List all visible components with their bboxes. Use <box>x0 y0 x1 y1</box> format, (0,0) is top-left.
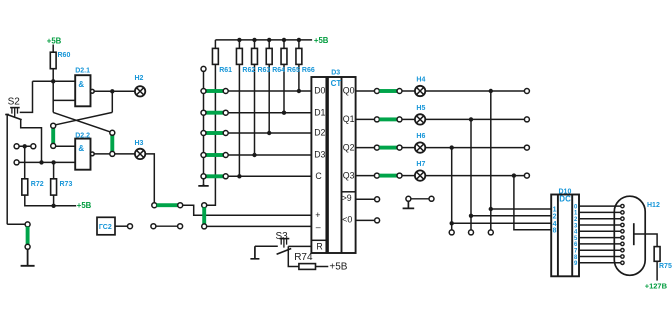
wire left bar to D2.2 input a <box>56 145 75 147</box>
svg-text:C: C <box>315 171 322 181</box>
ground S3 <box>250 246 259 259</box>
junction row D3in / resistor lead <box>252 153 256 157</box>
output row Q2 <box>356 147 375 149</box>
svg-text:ГС2: ГС2 <box>99 224 112 231</box>
wire R66 lead to row D0in <box>298 64 300 91</box>
resistor R73 <box>51 179 57 195</box>
wire D10 out8 to tube pin <box>579 256 621 258</box>
contact terminal Q0 right <box>397 89 402 94</box>
junction Q1 / D10 in2 <box>469 214 473 218</box>
terminal gt9 end <box>375 197 380 202</box>
wire R60 bottom lead <box>52 69 54 82</box>
wire GS2 output <box>115 225 128 227</box>
contact terminal row D0 right <box>223 89 228 94</box>
wire node A branch to D2.1 input b <box>53 99 75 101</box>
wire R61 lead down to contact <box>207 64 216 205</box>
contact terminal row B left <box>14 160 19 165</box>
contact terminal right bar top <box>110 130 115 135</box>
contact bar S2 bottom vertical <box>26 227 30 245</box>
junction row B / R73 <box>51 160 55 164</box>
svg-text:D3: D3 <box>314 150 325 160</box>
counter D3 chip <box>311 77 355 253</box>
resistor R61 <box>212 48 218 64</box>
svg-text:R66: R66 <box>302 67 315 74</box>
terminal below Q2 vertical <box>449 230 454 235</box>
svg-text:R73: R73 <box>60 181 73 188</box>
wire D2.2 output to H3 <box>94 153 135 155</box>
wire to D3 plus input <box>183 205 312 215</box>
svg-text:H5: H5 <box>416 105 425 112</box>
tube cathode pin 7 <box>621 249 624 252</box>
contact terminal Q0 left <box>374 89 379 94</box>
wire R63 top lead <box>254 40 256 49</box>
gate D2.2 <box>75 139 90 170</box>
resistor R62 <box>236 48 242 64</box>
svg-text:<0: <0 <box>342 215 352 225</box>
contact terminal row A left <box>14 144 19 149</box>
wire output node down <box>111 91 113 112</box>
contact terminal row D2 left <box>201 131 206 136</box>
terminal below Q0 vertical <box>488 230 493 235</box>
wire H3 to lower contact <box>145 154 154 203</box>
wire row A to R72 <box>24 146 26 179</box>
junction row D0 / resistor lead <box>297 89 301 93</box>
contact terminal row A right <box>31 144 36 149</box>
wire D10 out0 to tube pin <box>579 205 621 207</box>
junction Q0 branch <box>489 89 493 93</box>
svg-text:H4: H4 <box>416 77 425 84</box>
contact row C <box>228 175 311 177</box>
svg-text:D2.2: D2.2 <box>75 132 90 139</box>
terminal GS2 wire end <box>128 224 133 229</box>
resistor R66 <box>296 48 302 64</box>
tube cathode pin 4 <box>621 230 624 233</box>
lamp H6 <box>415 142 425 152</box>
junction Q3 branch <box>512 173 516 177</box>
tube cathode pin 2 <box>621 217 624 220</box>
resistor R72 <box>22 179 28 195</box>
terminal floating wire right <box>178 224 183 229</box>
wire D10 out3 to tube pin <box>579 224 621 226</box>
wire +5B bus <box>215 39 312 41</box>
svg-text:H12: H12 <box>647 202 660 209</box>
junction row D2 / resistor lead <box>267 131 271 135</box>
terminal rail top <box>201 66 206 71</box>
generator GS2 box <box>97 217 115 235</box>
resistor R64 <box>266 48 272 64</box>
wire Q0 contact to lamp H4 <box>402 90 415 92</box>
junction row D1 / resistor lead <box>282 111 286 115</box>
junction bus / R63 <box>252 38 256 42</box>
contact row D2 <box>228 132 311 134</box>
wire R66 top lead <box>298 40 300 49</box>
inversion bubble D2.2 output <box>90 152 94 156</box>
wire R62 top lead <box>238 40 240 49</box>
resistor R74 <box>299 264 316 270</box>
contact row D1 <box>228 112 311 114</box>
wire H4 to end terminal <box>425 90 524 92</box>
tube cathode pin 6 <box>621 242 624 245</box>
wire ground to S3 <box>255 245 278 247</box>
resistor R63 <box>252 48 258 64</box>
wire node A down to cross-coupling <box>52 81 54 112</box>
wire R60 top lead <box>52 45 54 53</box>
resistor R60 <box>50 52 56 68</box>
contact terminal Q3 left <box>374 173 379 178</box>
wire node A to S2 right terminal <box>20 81 33 112</box>
contact row D3in <box>228 154 311 156</box>
junction node A <box>51 79 55 83</box>
wire gt9 output <box>356 198 375 200</box>
wire R75 to +127B <box>656 261 658 280</box>
svg-text:R63: R63 <box>258 67 271 74</box>
terminal Q1 row end <box>524 117 529 122</box>
junction Q2 branch <box>450 145 454 149</box>
gate D2.1 <box>75 75 90 106</box>
wire R61 top lead <box>214 40 216 49</box>
wire D10 out2 to tube pin <box>579 218 621 220</box>
lamp H2 <box>135 86 145 96</box>
junction Q0 / D10 in1 <box>489 207 493 211</box>
svg-text:+127B: +127B <box>645 281 668 290</box>
svg-text:&: & <box>78 144 84 153</box>
nixie tube H12 envelope <box>614 196 645 275</box>
ground gt9 contact <box>403 201 415 208</box>
svg-text:R: R <box>316 242 322 252</box>
switch S3 <box>277 239 292 255</box>
contact terminal row C left <box>201 174 206 179</box>
svg-text:H2: H2 <box>135 75 144 82</box>
wire rail to bottom contact <box>7 223 25 225</box>
switch S2 <box>5 108 22 120</box>
lamp H4 <box>415 86 425 96</box>
svg-text:DC: DC <box>559 194 571 203</box>
svg-text:Q1: Q1 <box>343 114 355 124</box>
wire R73 bottom lead <box>53 195 55 206</box>
junction row B / S2 pole <box>39 160 43 164</box>
junction D2.1 output node <box>110 89 114 93</box>
wire to D3 minus input <box>207 225 312 227</box>
wire H6 to end terminal <box>425 147 524 149</box>
contact terminal row D1 right <box>223 110 228 115</box>
svg-text:R74: R74 <box>294 252 313 263</box>
output row Q1 <box>356 118 375 120</box>
tube cathode pin 3 <box>621 223 624 226</box>
wire D2.1 output to H2 <box>94 90 135 92</box>
junction bus / R65 <box>282 38 286 42</box>
svg-text:+5B: +5B <box>314 36 329 45</box>
svg-text:2: 2 <box>553 213 557 220</box>
decoder D10 chip <box>551 195 579 277</box>
wire R63 lead to row D3in <box>254 64 256 155</box>
svg-text:R72: R72 <box>31 181 44 188</box>
terminal grounded pair right <box>429 196 434 201</box>
svg-text:R75: R75 <box>659 263 672 270</box>
output row Q3 <box>356 175 375 177</box>
tube cathode pin 5 <box>621 236 624 239</box>
lamp H7 <box>415 170 425 180</box>
resistor R65 <box>281 48 287 64</box>
terminal below Q1 vertical <box>469 230 474 235</box>
contact terminal Q2 left <box>374 145 379 150</box>
svg-text:D3: D3 <box>331 70 340 77</box>
wire D10 out6 to tube pin <box>579 243 621 245</box>
wire S2 left rail down <box>6 115 8 225</box>
wire D10 out4 to tube pin <box>579 230 621 232</box>
wire R64 top lead <box>268 40 270 49</box>
wire row B to R73 <box>53 162 55 178</box>
svg-text:D2: D2 <box>314 128 325 138</box>
svg-text:+5B: +5B <box>329 262 347 273</box>
contact terminal vertical bar bottom <box>202 224 207 229</box>
S2 contact row A <box>17 145 34 147</box>
svg-text:>9: >9 <box>342 193 352 203</box>
wire H5 to end terminal <box>425 118 524 120</box>
junction bus / R66 <box>297 38 301 42</box>
inversion bubble D2.1 output <box>90 89 94 93</box>
svg-text:Q2: Q2 <box>343 142 355 152</box>
resistor R75 <box>654 247 660 262</box>
contact terminal row D1 left <box>201 110 206 115</box>
svg-text:CT: CT <box>331 79 342 88</box>
svg-text:S2: S2 <box>8 96 21 107</box>
junction row C / resistor lead <box>237 174 241 178</box>
output row Q0 <box>356 90 375 92</box>
ground S2 bottom <box>21 249 35 265</box>
svg-text:Q0: Q0 <box>343 86 355 96</box>
contact terminal Q1 right <box>397 117 402 122</box>
terminal Q3 row end <box>524 173 529 178</box>
lamp H5 <box>415 114 425 124</box>
contact terminal H3 bar right <box>178 203 183 208</box>
wire Q3 to D10 input 8 <box>514 176 551 230</box>
wire S3 to R74 <box>288 246 299 266</box>
tube anode <box>633 223 635 245</box>
junction row A center to R72 <box>23 144 27 148</box>
tube cathode pin 9 <box>621 261 624 264</box>
ground rail bottom <box>198 184 208 186</box>
svg-text:R62: R62 <box>242 67 255 74</box>
contact terminal left bar top <box>51 123 56 128</box>
wire Q2 to D10 input 4 <box>452 222 552 224</box>
wire R74 to +5B <box>316 266 329 268</box>
contact terminal S2 bottom bar top <box>25 222 30 227</box>
terminal grounded pair left <box>406 196 411 201</box>
contact terminal row C right <box>223 174 228 179</box>
contact terminal Q1 left <box>374 117 379 122</box>
contact terminal Q3 right <box>397 173 402 178</box>
wire D10 out7 to tube pin <box>579 249 621 251</box>
wire Q0 vertical <box>490 91 492 230</box>
svg-text:R60: R60 <box>58 52 71 59</box>
svg-text:H6: H6 <box>416 133 425 140</box>
wire H7 to end terminal <box>425 175 524 177</box>
svg-text:H7: H7 <box>416 161 425 168</box>
wire R72/R73 bottoms to +5B <box>25 195 76 206</box>
wire R64 lead to row D2in <box>268 64 270 133</box>
contact row D0 <box>228 90 311 92</box>
svg-text:R64: R64 <box>272 67 285 74</box>
wire Q2 contact to lamp H6 <box>402 147 415 149</box>
common rail of input contacts <box>203 71 205 183</box>
wire lt0 output <box>356 219 375 221</box>
contact terminal row D0 left <box>201 89 206 94</box>
contact terminal Q2 right <box>397 145 402 150</box>
wire cross diagonal B <box>54 112 112 125</box>
contact terminal H3 bar left <box>152 203 157 208</box>
junction R73 bottom <box>51 204 55 208</box>
wire D10 out9 to tube pin <box>579 262 621 264</box>
wire anode to R75 <box>634 234 657 247</box>
svg-text:+5B: +5B <box>77 201 92 210</box>
tube cathode pin 1 <box>621 211 624 214</box>
svg-text:H3: H3 <box>135 140 144 147</box>
lamp H3 <box>135 149 145 159</box>
svg-text:D0: D0 <box>314 86 325 96</box>
wire Q2 vertical <box>451 148 453 230</box>
wire Q1 vertical <box>470 119 472 229</box>
contact terminal row D3in right <box>223 153 228 158</box>
svg-text:+5B: +5B <box>47 37 62 46</box>
wire Q0 to D10 input 1 <box>491 208 551 210</box>
terminal Q2 row end <box>524 145 529 150</box>
svg-text:D1: D1 <box>314 107 325 117</box>
terminal lt0 end <box>375 218 380 223</box>
terminal floating wire left <box>151 224 156 229</box>
S2 contact row B <box>17 161 76 163</box>
contact bar right cross-coupling <box>110 135 114 152</box>
wire S3 to D3 R input <box>288 245 311 247</box>
wire Q3 contact to lamp H7 <box>402 175 415 177</box>
contact terminal S2 bottom bar bottom <box>25 244 30 249</box>
svg-text:Q3: Q3 <box>343 170 355 180</box>
contact terminal vertical bar top <box>202 203 207 208</box>
junction bus / R62 <box>237 38 241 42</box>
wire D10 out1 to tube pin <box>579 211 621 213</box>
svg-text:D2.1: D2.1 <box>75 68 90 75</box>
wire cross diagonal A <box>53 112 111 132</box>
wire S2 lower pole to row B <box>21 120 42 162</box>
wire Q1 to D10 input 2 <box>471 215 551 217</box>
svg-text:+: + <box>315 210 320 220</box>
svg-text:–: – <box>316 222 321 232</box>
svg-text:8: 8 <box>553 227 557 234</box>
wire R62 lead to row C <box>238 64 240 176</box>
contact terminal row D2 right <box>223 131 228 136</box>
svg-text:&: & <box>78 80 84 89</box>
tube cathode pin 8 <box>621 255 624 258</box>
contact terminal left bar bottom <box>51 143 56 148</box>
wire R65 top lead <box>283 40 285 49</box>
tube cathode pin 0 <box>621 204 624 207</box>
svg-text:R61: R61 <box>219 67 232 74</box>
wire D10 out5 to tube pin <box>579 237 621 239</box>
wire Q1 contact to lamp H5 <box>402 118 415 120</box>
wire R65 lead to row D1in <box>283 64 285 113</box>
svg-text:S3: S3 <box>276 231 289 242</box>
junction bus / R64 <box>267 38 271 42</box>
junction Q1 branch <box>469 117 473 121</box>
contact bar left cross-coupling <box>51 128 55 144</box>
terminal Q0 row end <box>524 89 529 94</box>
junction Q2 / D10 in4 <box>450 221 454 225</box>
wire node A horizontal <box>33 80 76 82</box>
svg-text:R65: R65 <box>287 67 300 74</box>
contact terminal row D3in left <box>201 153 206 158</box>
contact terminal right bar bottom <box>110 151 115 156</box>
